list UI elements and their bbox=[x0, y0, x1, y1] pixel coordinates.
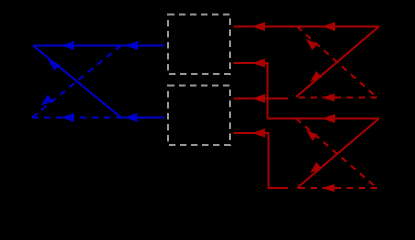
wire red bottom butterfly top horizontal (TR to TL to corner) bbox=[268, 118, 380, 120]
wire blue dashed bottom horizontal (BR to BL) bbox=[32, 117, 120, 119]
arrow red C6 bbox=[252, 129, 265, 138]
arrow red B4 (solid diagonal) bbox=[307, 71, 322, 85]
arrow red C1 bbox=[252, 59, 265, 68]
arrow blue A3 (on solid diagonal) bbox=[45, 57, 60, 71]
arrow blue A1 bbox=[61, 41, 74, 50]
box DFT-1 (top dashed gray box) bbox=[168, 15, 230, 75]
arrow red C5 bbox=[322, 184, 335, 192]
wire blue solid diagonal (BR to TL) bbox=[33, 46, 121, 118]
wire red L-route bottom butterfly BL to box2 input2 bbox=[234, 133, 289, 188]
arrow blue A5 bbox=[125, 113, 138, 122]
arrow red C3 (dashed diagonal) bbox=[303, 127, 318, 141]
wire blue dashed diagonal (TR to BL) bbox=[32, 46, 121, 118]
arrow blue A4 bbox=[61, 113, 74, 122]
wire red top butterfly horizontal (TR to box1 input1) bbox=[234, 26, 380, 28]
arrow red B2 bbox=[322, 22, 335, 31]
arrow red B6 bbox=[252, 94, 265, 103]
wire red bottom butterfly dashed diagonal (TL to BR) bbox=[296, 119, 377, 189]
arrow red B1 bbox=[252, 22, 265, 31]
arrow red B3 (dashed diagonal) bbox=[303, 36, 318, 50]
wire red top butterfly dashed bottom (BR to BL) bbox=[296, 97, 377, 99]
wire blue top horizontal (box1 output to node TL) bbox=[33, 45, 165, 47]
wire red L-route bottom butterfly TL to box1 input2 bbox=[234, 63, 268, 119]
wire red solid into box2 input1 bbox=[234, 98, 289, 100]
arrow blue A6 (on dashed diagonal) bbox=[38, 95, 53, 109]
wire red bottom butterfly solid diagonal (TR to BL) bbox=[297, 119, 379, 189]
wire red top butterfly solid diagonal (TR to BL) bbox=[296, 27, 379, 98]
wire red bottom butterfly dashed bottom (BR to BL) bbox=[295, 187, 377, 189]
arrow red C2 bbox=[322, 114, 335, 123]
arrow red B5 bbox=[322, 94, 335, 102]
arrow red C4 (solid diagonal) bbox=[307, 162, 322, 176]
wire blue solid bottom (box2 output to node BR) bbox=[120, 117, 165, 119]
arrow blue A2 bbox=[125, 41, 138, 50]
box DFT-2 (bottom dashed gray box) bbox=[168, 86, 230, 146]
wire red top butterfly dashed diagonal (TL to BR) bbox=[297, 27, 377, 98]
